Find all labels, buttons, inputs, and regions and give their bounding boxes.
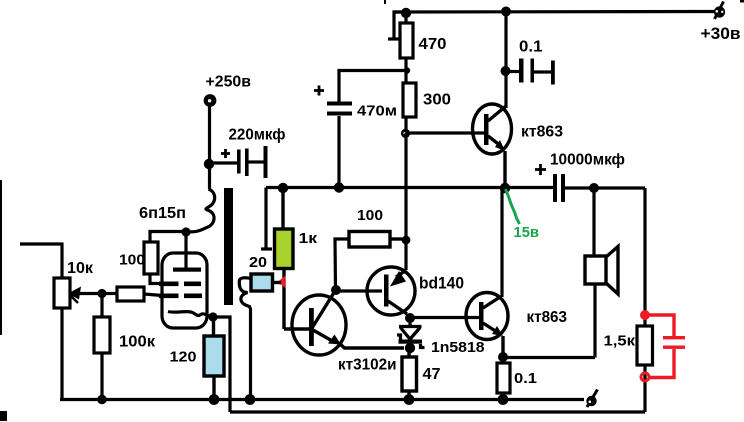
wire screen resistor branch	[150, 232, 186, 243]
wire rail left stub	[261, 188, 272, 250]
wire collector to 100 resistor	[335, 239, 349, 290]
resistor 0.1	[497, 363, 510, 396]
node junction secondary bottom	[245, 394, 256, 405]
svg-text:10000мкф: 10000мкф	[550, 152, 625, 169]
decorative tick top	[384, 0, 386, 4]
label 220мкф plus	[221, 149, 230, 158]
resistor 120	[204, 317, 224, 396]
decorative corner tick	[740, 0, 744, 3]
svg-text:470м: 470м	[357, 103, 397, 120]
svg-text:100: 100	[357, 207, 383, 224]
wire top rail +30v	[394, 10, 715, 14]
diode 1n5818	[397, 318, 425, 348]
terminal +30в	[714, 2, 725, 20]
label 470м plus	[314, 86, 324, 96]
resistor 1к	[275, 188, 294, 329]
wire input	[20, 244, 62, 278]
decorative left edge line	[0, 180, 2, 335]
transistor кт863 lower	[466, 293, 508, 355]
wire bottom bus1	[60, 398, 584, 401]
wire 300 node down to bd140 emitter	[404, 133, 407, 270]
transformer core	[224, 188, 233, 305]
capacitor 220мкф	[209, 146, 268, 178]
resistor 1,5к	[637, 326, 653, 412]
tube anode	[173, 232, 201, 272]
tube screen grid g2	[159, 282, 201, 287]
wire speaker bottom	[593, 284, 596, 358]
svg-text:1n5818: 1n5818	[431, 339, 485, 356]
wire +250в down	[208, 104, 211, 189]
svg-text:15в: 15в	[514, 224, 540, 241]
transformer secondary winding	[239, 278, 251, 396]
wire to capacitor 470м	[339, 71, 407, 103]
resistor 300	[403, 83, 416, 131]
resistor 100 feedback	[349, 232, 402, 248]
wire speaker top	[592, 190, 595, 256]
resistor 100к	[94, 294, 110, 396]
node A junction dot top of 470	[401, 8, 411, 18]
svg-text:bd140: bd140	[419, 275, 464, 293]
wire collector lower кт863	[500, 190, 503, 297]
svg-text:100к: 100к	[119, 334, 156, 351]
wire bottom bus2	[230, 410, 645, 413]
node junction 220мкф tap	[204, 159, 214, 169]
wire emitter junction to speaker bottom	[503, 356, 595, 359]
svg-text:47: 47	[423, 366, 441, 383]
red zobel capacitor	[645, 315, 685, 378]
node cathode junction	[208, 312, 217, 321]
red junction mark	[278, 276, 286, 289]
node кт3102и collector junction	[331, 285, 341, 295]
capacitor 20	[251, 274, 281, 291]
node junction 120 bottom	[209, 394, 220, 405]
potentiometer 10к	[54, 278, 70, 398]
svg-text:120: 120	[170, 349, 197, 366]
node junction 1к top	[278, 183, 288, 193]
capacitor 470м electrolytic	[327, 102, 352, 185]
node junction 470/300/470м	[404, 67, 410, 73]
transistor кт3102и	[284, 291, 404, 355]
red node top	[640, 310, 650, 320]
node junction 0.1 bottom	[498, 394, 509, 405]
svg-text:+250в: +250в	[206, 74, 252, 91]
node junction mid rail / emitter top кт863	[500, 183, 510, 193]
node junction 100к bottom	[97, 395, 107, 405]
resistor 100 screen	[144, 242, 162, 284]
node junction 300 bottom	[401, 129, 410, 138]
green leader 15в	[506, 189, 520, 224]
svg-text:кт863: кт863	[521, 124, 563, 141]
transistor кт863 top	[473, 104, 512, 184]
terminal +250в	[204, 94, 217, 107]
speaker	[585, 247, 618, 295]
wire right branch down	[643, 188, 646, 326]
resistor 47	[402, 348, 417, 396]
wire mid rail	[266, 186, 645, 190]
node wiper junction	[97, 289, 106, 298]
wire cathode to bottom bus2	[213, 317, 230, 412]
node junction diode cathode	[405, 343, 415, 353]
wire base of top кт863	[406, 131, 484, 134]
svg-text:кт3102и: кт3102и	[338, 357, 397, 374]
node junction 470м bottom	[334, 182, 344, 192]
svg-text:470: 470	[419, 36, 447, 53]
svg-text:+30в: +30в	[701, 24, 741, 43]
svg-text:20: 20	[249, 254, 267, 271]
node anode junction	[181, 227, 190, 236]
svg-text:220мкф: 220мкф	[229, 127, 286, 144]
svg-text:300: 300	[423, 92, 451, 109]
svg-text:10к: 10к	[67, 260, 94, 277]
node junction +30 rail	[501, 7, 511, 17]
wire base of lower кт863	[410, 316, 479, 319]
node junction emitter / 0.1	[498, 352, 508, 362]
resistor 470	[400, 13, 413, 83]
svg-text:1к: 1к	[299, 230, 318, 247]
wire collector to bd140 base	[336, 289, 382, 292]
node junction 47 bottom	[404, 394, 415, 405]
svg-text:кт863: кт863	[527, 309, 568, 326]
transformer primary winding	[189, 189, 215, 232]
tube control grid g1	[159, 294, 202, 299]
svg-text:6п15п: 6п15п	[139, 205, 186, 222]
terminal output	[586, 390, 597, 408]
node junction 0.1 cap tap	[501, 66, 511, 76]
node junction bd140 collector	[405, 313, 415, 323]
svg-text:0.1: 0.1	[514, 370, 537, 387]
red node bottom	[641, 373, 649, 381]
node junction 100/bd140 emitter	[402, 236, 411, 245]
capacitor 10000мкф	[553, 174, 565, 202]
tube 6п15п envelope	[162, 253, 207, 328]
tube cathode	[168, 312, 211, 317]
svg-text:100: 100	[119, 252, 145, 269]
decorative bottom-left square	[0, 411, 7, 421]
wire hook left of resistor 470	[388, 12, 406, 39]
pot wiper arrow	[68, 287, 102, 304]
node junction speaker tap	[589, 183, 599, 193]
svg-text:1,5к: 1,5к	[604, 334, 636, 350]
svg-text:0.1: 0.1	[519, 39, 543, 56]
label 10000мкф plus	[535, 164, 546, 175]
transistor bd140	[367, 267, 415, 315]
capacitor 0.1 top	[505, 59, 555, 85]
wire collector top кт863 to +30 rail	[504, 11, 507, 108]
resistor grid stopper	[106, 287, 162, 301]
